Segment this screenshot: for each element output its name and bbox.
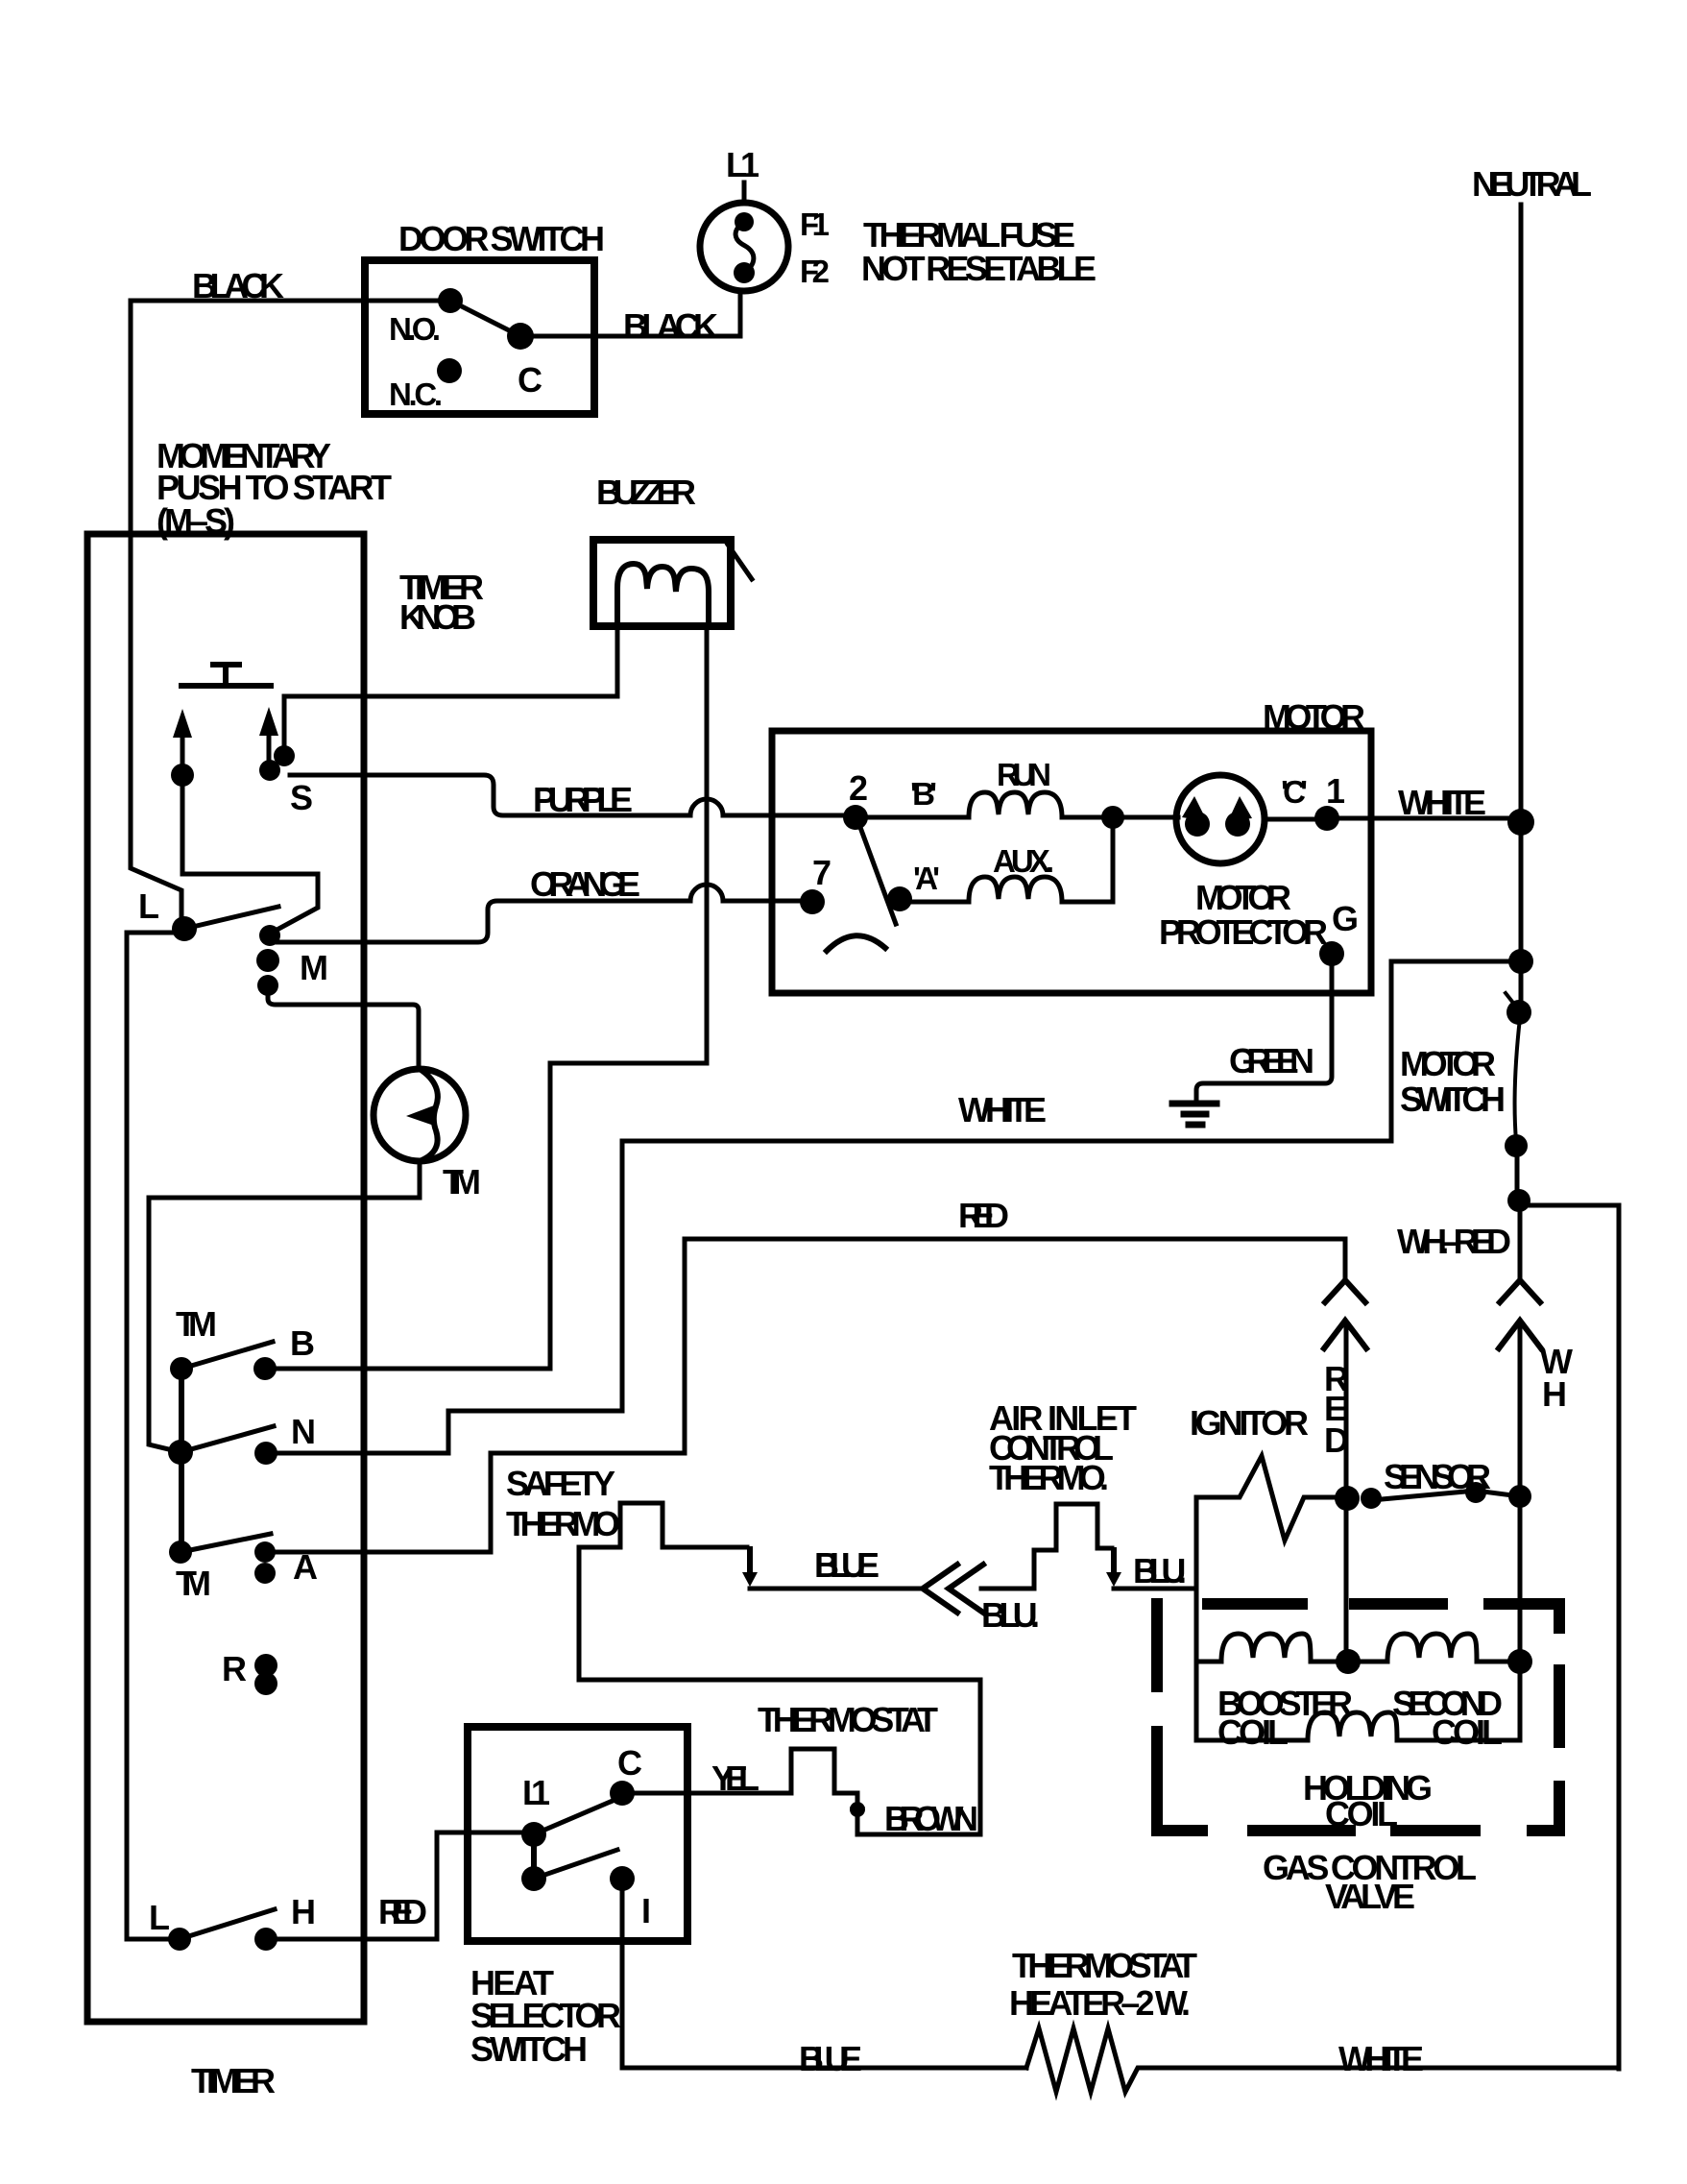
svg-text:7: 7 [812, 853, 831, 892]
junction white-neutral [1507, 809, 1534, 836]
svg-text:N: N [291, 1412, 316, 1451]
svg-text:F2: F2 [800, 254, 830, 289]
M contact stack top [259, 925, 280, 946]
svg-text:THERMO.: THERMO. [989, 1458, 1109, 1497]
safety thermo bump [579, 1503, 747, 1547]
door switch N.O. terminal [438, 288, 463, 313]
motor blade 2-A [858, 822, 896, 924]
svg-text:I: I [641, 1891, 651, 1930]
wire push-arrow dot to M contact [182, 786, 318, 933]
air inlet control thermo bump [1034, 1504, 1112, 1589]
junction ignitor-sensor [1361, 1488, 1382, 1509]
svg-text:MOTOR: MOTOR [1400, 1044, 1496, 1083]
wire GREEN from G to ground [1196, 954, 1332, 1102]
svg-text:2: 2 [849, 768, 868, 808]
svg-text:G: G [1332, 899, 1359, 938]
second coil [1387, 1634, 1477, 1662]
svg-text:L: L [149, 1898, 170, 1937]
svg-text:R: R [222, 1649, 247, 1688]
junction booster-second [1336, 1649, 1361, 1674]
svg-text:RED: RED [958, 1196, 1009, 1235]
wire PURPLE S contact to motor 2 [290, 775, 856, 815]
sensor link [1371, 1491, 1520, 1500]
motor switch bottom contact [1505, 1134, 1528, 1157]
svg-text:SAFETY: SAFETY [506, 1464, 615, 1503]
push to start button bar [181, 665, 271, 686]
svg-text:AUX.: AUX. [993, 843, 1054, 879]
wire gas valve left rail [1194, 1497, 1199, 1740]
svg-text:A: A [293, 1547, 318, 1587]
wire I contact down to bottom BLUE wire [622, 1891, 1026, 2068]
svg-text:B: B [290, 1323, 315, 1363]
svg-text:THERMOSTAT: THERMOSTAT [758, 1700, 938, 1739]
svg-text:BROWN: BROWN [884, 1799, 978, 1838]
buzzer box [593, 540, 731, 626]
wire B contact to buzzer [265, 626, 707, 1369]
svg-text:NOT RESETABLE: NOT RESETABLE [861, 249, 1097, 288]
svg-text:BLACK: BLACK [623, 306, 718, 346]
M contact stack bottom [257, 975, 278, 996]
junction RED-ignitor [1335, 1486, 1360, 1511]
wire RED H contact to heat selector L1 [266, 1832, 521, 1939]
junction motor switch-neutral [1508, 949, 1533, 974]
junction WH branch [1507, 1189, 1530, 1212]
gas control valve dashed box [1151, 1598, 1565, 1831]
safety thermo tick arrowhead [742, 1572, 758, 1587]
air inlet tick arrowhead [1106, 1572, 1121, 1587]
protector contact left [1185, 812, 1210, 837]
wire L1 lead to fuse top [742, 182, 747, 204]
svg-text:C: C [518, 360, 542, 400]
sensor mid dot [1465, 1482, 1486, 1503]
svg-text:SWITCH: SWITCH [1400, 1080, 1506, 1119]
thermostat bump [791, 1749, 857, 1793]
junction run/aux [1101, 806, 1124, 829]
heat selector link L1 to lower pole [531, 1846, 537, 1873]
connector fork RED [1325, 1280, 1365, 1302]
svg-text:THERMO: THERMO [506, 1504, 620, 1543]
motor switch top contact [1506, 1000, 1531, 1025]
svg-text:MOTOR: MOTOR [1195, 878, 1291, 917]
timer pivot TM-N [168, 1440, 193, 1465]
protector contact right [1225, 812, 1250, 837]
wire switch lower contact link [1515, 1149, 1520, 1199]
svg-text:N.C.: N.C. [389, 376, 443, 412]
timer blade L-H [180, 1909, 275, 1939]
svg-text:N.O.: N.O. [389, 311, 441, 347]
motor contact A [887, 886, 912, 911]
wire S contact up to buzzer left leg [284, 626, 617, 752]
thermal fuse F1/F2 [700, 203, 788, 291]
svg-text:H: H [1542, 1374, 1567, 1414]
heat selector blade L1-C [534, 1798, 619, 1834]
wire booster coil row [1196, 1660, 1520, 1664]
svg-text:'A': 'A' [913, 861, 940, 896]
wire aux row and tie to run output [900, 817, 1113, 902]
heat selector switch box [468, 1727, 687, 1941]
door switch N.C. terminal [437, 358, 462, 383]
timer pivot TM-B [170, 1357, 193, 1380]
wire neutral to switch top contact [1519, 964, 1524, 1007]
motor terminal 2 [843, 805, 868, 830]
svg-text:PURPLE: PURPLE [533, 780, 633, 819]
ground symbol [1172, 1104, 1217, 1125]
timer motor TM [374, 1069, 466, 1161]
wire WH.-RED branch right and down [1520, 1205, 1619, 2069]
run winding coil [969, 792, 1062, 817]
booster coil [1221, 1634, 1311, 1662]
svg-text:BLUE: BLUE [799, 2039, 862, 2078]
wire YEL C contact to thermostat [635, 1791, 791, 1796]
svg-text:COIL: COIL [1217, 1712, 1289, 1752]
heat selector terminal I [610, 1866, 635, 1891]
svg-text:'C': 'C' [1281, 774, 1308, 810]
timer blade TM-N [181, 1426, 274, 1452]
wire NEUTRAL vertical [1519, 205, 1524, 964]
fuse terminal F2 [734, 262, 755, 283]
svg-text:BLU.: BLU. [1133, 1551, 1187, 1590]
buzzer coil [617, 564, 709, 626]
safety thermo tick to BLUE wire [747, 1549, 753, 1575]
wire RED shaft down through ignitor node to booster node [1344, 1323, 1349, 1662]
svg-text:GREEN: GREEN [1229, 1041, 1314, 1080]
wire holding coil row [1196, 1662, 1520, 1740]
wire motor switch top to neutral [1391, 961, 1521, 1141]
svg-text:H: H [291, 1892, 316, 1931]
S contact dot [274, 745, 295, 766]
timer pivot L [172, 916, 197, 941]
contact A upper [254, 1541, 276, 1563]
wire WHITE motor terminal 1 to neutral [1327, 816, 1521, 821]
svg-text:RUN: RUN [997, 757, 1051, 792]
connector chevron outer BLU [923, 1565, 957, 1613]
svg-text:PROTECTOR: PROTECTOR [1159, 912, 1328, 952]
svg-text:IGNITOR: IGNITOR [1190, 1403, 1309, 1443]
svg-text:'B': 'B' [910, 776, 937, 812]
wire timer pivots B-N-A [179, 1369, 184, 1552]
buzzer flag lead [728, 545, 752, 579]
svg-text:M: M [300, 948, 328, 987]
connector arrow RED [1324, 1321, 1366, 1348]
momentary arrowhead right [259, 707, 278, 736]
junction second-WH [1507, 1649, 1532, 1674]
svg-text:BLU.: BLU. [981, 1595, 1040, 1635]
contact N [254, 1442, 277, 1465]
wire WH shaft down to sensor node [1518, 1323, 1523, 1662]
svg-text:TM: TM [443, 1162, 481, 1201]
svg-text:BUZZER: BUZZER [596, 473, 696, 512]
svg-text:THERMOSTAT: THERMOSTAT [1012, 1946, 1197, 1985]
svg-text:MOTOR: MOTOR [1263, 697, 1365, 737]
wire protector to terminal 1 [1264, 817, 1327, 822]
heat selector terminal L1 [521, 1822, 546, 1847]
timer blade TM-B [181, 1342, 273, 1369]
motor switch blade [1515, 1018, 1520, 1141]
M contact stack middle [256, 949, 279, 972]
svg-text:SWITCH: SWITCH [470, 2029, 588, 2069]
timer blade L pivot [184, 907, 278, 929]
svg-text:KNOB: KNOB [399, 597, 476, 637]
wire BLU to gas valve junction [1114, 1587, 1196, 1591]
ignitor element [1196, 1456, 1345, 1541]
S movable dot [259, 760, 280, 781]
wire WH stem to connector fork [1518, 1202, 1523, 1280]
svg-text:WHITE: WHITE [958, 1090, 1047, 1129]
momentary arrow left contact [171, 764, 194, 787]
svg-text:WHITE: WHITE [1338, 2039, 1424, 2078]
connector chevron inner BLU [949, 1565, 983, 1613]
contact R lower [254, 1672, 277, 1695]
wire pivot L to timer lower-left rail [127, 933, 182, 1939]
svg-text:YEL: YEL [711, 1759, 759, 1798]
heat selector terminal C [610, 1781, 635, 1806]
wire BLACK from timer to door switch N.O. [131, 301, 450, 916]
thermostat heater 2W zigzag [1026, 2028, 1156, 2092]
wire WHITE bottom to right riser [1156, 2066, 1619, 2071]
protector heater right [1228, 796, 1252, 821]
svg-text:F1: F1 [800, 206, 830, 242]
svg-text:(M–S): (M–S) [157, 501, 235, 541]
aux winding coil [969, 877, 1062, 902]
heat selector lower pole [521, 1866, 546, 1891]
door switch common C terminal [507, 323, 534, 350]
brown junction dot [850, 1802, 865, 1817]
door switch blade N.O.-C [450, 301, 520, 336]
svg-text:1: 1 [1326, 771, 1345, 811]
wire TM motor to N pivot [149, 1161, 420, 1452]
svg-text:WH.–RED: WH.–RED [1397, 1222, 1511, 1261]
connector arrow WH [1499, 1321, 1541, 1348]
brown tick arrowhead [850, 1807, 865, 1821]
svg-text:L: L [138, 886, 159, 926]
svg-text:L1: L1 [522, 1773, 550, 1812]
wire A contact to RED connector [265, 1239, 1345, 1552]
door switch box [365, 260, 594, 414]
wire M bottom contact to TM motor [268, 995, 419, 1069]
wire BLU to air inlet thermo [981, 1587, 1034, 1591]
svg-text:L1: L1 [726, 145, 759, 184]
holding coil [1308, 1712, 1397, 1740]
fuse terminal F1 [735, 212, 754, 231]
motor momentary arc [827, 935, 885, 951]
contact R upper [254, 1654, 277, 1677]
contact A lower [254, 1563, 276, 1584]
contact H [254, 1928, 277, 1951]
wire run output to protector [856, 815, 1178, 820]
svg-text:VALVE: VALVE [1325, 1877, 1415, 1916]
air inlet tick to BLU wire [1111, 1550, 1117, 1575]
svg-text:TM: TM [176, 1564, 211, 1603]
svg-text:C: C [617, 1743, 642, 1783]
momentary arrowhead left [173, 709, 192, 738]
heat selector blade lower [534, 1850, 617, 1879]
wire WHITE long run to N contact [266, 1141, 1391, 1453]
momentary arrow right shaft [267, 734, 272, 761]
protector heater left [1182, 796, 1207, 821]
motor protector [1176, 775, 1265, 863]
svg-text:HEATER–2 W.: HEATER–2 W. [1009, 1983, 1191, 2023]
contact L [168, 1928, 191, 1951]
connector fork WH [1500, 1280, 1540, 1302]
timer pivot TM-A [169, 1541, 192, 1564]
svg-text:S: S [290, 778, 313, 817]
motor box [772, 731, 1371, 993]
timer blade TM-A [181, 1534, 271, 1552]
motor terminal 7 [800, 889, 825, 914]
svg-text:COIL: COIL [1432, 1712, 1503, 1752]
svg-text:NEUTRAL: NEUTRAL [1472, 164, 1592, 204]
contact B [253, 1357, 277, 1380]
motor terminal G [1319, 941, 1344, 966]
timer box [87, 534, 364, 2022]
svg-text:BLUE: BLUE [814, 1545, 880, 1585]
wire BLUE to connector chevrons [750, 1587, 920, 1591]
svg-text:DOOR SWITCH: DOOR SWITCH [398, 219, 605, 258]
junction WH-sensor [1508, 1485, 1531, 1508]
motor terminal 1 [1314, 806, 1339, 831]
wire BLACK door switch C to thermal fuse [520, 291, 740, 336]
svg-text:BLACK: BLACK [192, 266, 284, 305]
wire ORANGE M contact to motor 7 [272, 885, 812, 942]
svg-text:TIMER: TIMER [191, 2061, 276, 2100]
motor switch open tick [1506, 993, 1516, 1007]
svg-text:WHITE: WHITE [1398, 783, 1486, 822]
svg-text:SENSOR: SENSOR [1384, 1457, 1491, 1496]
svg-text:TM: TM [176, 1304, 217, 1344]
svg-text:COIL: COIL [1325, 1794, 1398, 1833]
wire BROWN junction down and around to safety thermo [579, 1547, 980, 1834]
svg-text:RED: RED [378, 1892, 427, 1931]
svg-text:D: D [1324, 1420, 1349, 1460]
momentary arrow left shaft [181, 736, 185, 768]
svg-text:ORANGE: ORANGE [530, 864, 640, 904]
